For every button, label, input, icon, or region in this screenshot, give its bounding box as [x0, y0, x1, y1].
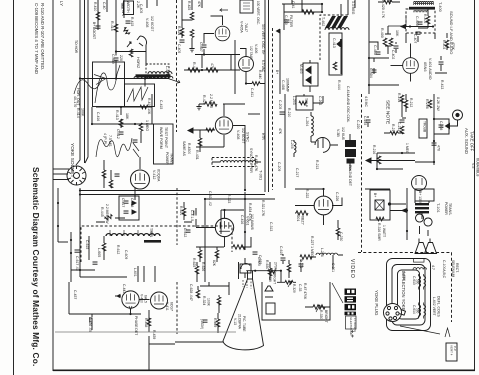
wire yoke lead 1 [53, 168, 69, 170]
capacitor C-409 [114, 58, 119, 60]
wire bus 1 [79, 0, 81, 152]
svg-text:R-626: R-626 [201, 262, 205, 271]
dashed vertical right [451, 253, 453, 323]
svg-text:C-416: C-416 [240, 215, 244, 224]
transformer T-400 core hatch [409, 7, 435, 10]
capacitor C-223 [299, 264, 304, 266]
svg-text:FT. WORTH: FT. WORTH [353, 318, 357, 332]
coil L-204 [311, 116, 313, 136]
wire [349, 134, 351, 171]
svg-text:V-412: V-412 [152, 170, 156, 179]
dashed enclosure [320, 15, 348, 60]
resistor R-42 470K [147, 318, 151, 326]
svg-text:C-414A AND OSC COIL: C-414A AND OSC COIL [346, 86, 350, 122]
wire grid arrow [115, 295, 121, 298]
diagonal lead [400, 326, 440, 334]
resistor [217, 297, 221, 305]
box [303, 63, 318, 86]
svg-text:C-412: C-412 [116, 129, 120, 139]
svg-text:1 WATT: 1 WATT [382, 225, 386, 237]
node dot [201, 69, 203, 71]
wire to crt [175, 341, 223, 343]
CRT neck lines [248, 271, 253, 279]
svg-text:AUX. SOUND: AUX. SOUND [464, 128, 469, 154]
resistor [215, 250, 219, 258]
B+ box [370, 190, 390, 220]
wire bus bend to socket [76, 147, 88, 165]
wire [240, 49, 246, 84]
T-101 core hatch [415, 203, 429, 213]
capacitor [203, 320, 208, 322]
wire [311, 142, 338, 145]
wire [283, 4, 285, 30]
svg-text:R-416: R-416 [110, 21, 114, 31]
svg-text:C-621 .02: C-621 .02 [208, 191, 212, 206]
svg-text:C-4 1.5: C-4 1.5 [190, 210, 194, 221]
arrow on resistor [316, 305, 320, 312]
svg-text:PHASE DET: PHASE DET [134, 316, 138, 335]
wire top rail 1 [80, 190, 190, 192]
coil 1 leads [419, 274, 424, 290]
wire x58 col [58, 188, 68, 242]
svg-text:1/2 6CG7: 1/2 6CG7 [241, 128, 245, 143]
svg-text:WAVE FORM: WAVE FORM [159, 127, 163, 149]
svg-text:C-416: C-416 [96, 112, 100, 121]
inner margin rule [52, 0, 54, 371]
trapezoid marks [265, 286, 273, 297]
svg-text:C-443: C-443 [122, 284, 126, 293]
neck dashes [243, 280, 251, 289]
svg-text:L-203: L-203 [292, 96, 296, 105]
sawtooth trace [127, 87, 148, 102]
wire [390, 204, 406, 211]
cap [93, 262, 98, 264]
node dot [57, 225, 59, 227]
svg-text:C-405: C-405 [177, 44, 181, 53]
resistor [216, 319, 220, 327]
svg-text:470: 470 [437, 145, 441, 151]
wire [246, 83, 265, 85]
pix det black blob 1 [345, 140, 356, 147]
wire [195, 208, 197, 227]
node dot [406, 209, 408, 211]
svg-text:6.3 VAC: 6.3 VAC [261, 60, 265, 73]
wire [94, 75, 106, 85]
capacitor [180, 40, 185, 42]
svg-text:100K: 100K [81, 108, 85, 117]
tube V-411 [151, 292, 168, 309]
wire [89, 236, 104, 260]
resistor diagonal [123, 27, 131, 36]
svg-text:R-431: R-431 [195, 150, 199, 160]
left page rule [13, 0, 15, 375]
wire plate up [223, 104, 225, 116]
coil in box [299, 101, 307, 105]
svg-text:C-415: C-415 [159, 100, 163, 109]
dashed left [176, 282, 178, 334]
T-301 winding [220, 161, 256, 163]
svg-text:PIX 2ND DET: PIX 2ND DET [348, 165, 352, 186]
node dot big [388, 202, 391, 205]
svg-text:R-227 1 MEG: R-227 1 MEG [310, 236, 314, 257]
winding core hatch [144, 240, 161, 243]
diode D [337, 40, 342, 48]
capacitor [400, 120, 405, 122]
coil 2 leads [419, 303, 424, 319]
resistor R-431 [198, 138, 202, 146]
arrow [129, 306, 132, 310]
svg-text:C-211: C-211 [331, 263, 335, 272]
cap can trapezoid 1 [415, 243, 427, 254]
node dot [204, 198, 206, 200]
T-400 base wire [402, 26, 435, 28]
wire [120, 107, 122, 128]
wire yoke lead 3 [53, 179, 69, 181]
svg-text:C-226: C-226 [335, 192, 339, 201]
wire grid [204, 34, 214, 44]
wire [244, 258, 246, 278]
svg-text:C-407: C-407 [413, 34, 417, 43]
capacitor 470 [432, 143, 437, 145]
wire grid [295, 205, 314, 207]
inner comp box [266, 303, 275, 314]
capacitor C-623 [253, 252, 258, 254]
electrolytic can 2 [424, 218, 432, 236]
svg-text:T-101: T-101 [436, 203, 440, 213]
resistor 1 MEG [139, 123, 143, 131]
wire [376, 153, 378, 169]
svg-text:B+: B+ [275, 70, 279, 74]
dashed divider [361, 94, 363, 252]
resistor hold control [129, 49, 133, 57]
svg-text:TAKE OFF: TAKE OFF [470, 131, 475, 152]
svg-text:47K: 47K [278, 128, 282, 135]
triode V-408 half [137, 36, 147, 46]
svg-text:R-413: R-413 [115, 110, 119, 120]
svg-text:FILTER: FILTER [289, 15, 293, 28]
svg-text:R-403: R-403 [442, 40, 446, 49]
wire [96, 218, 125, 222]
wire [417, 36, 419, 42]
tube V-412 6DQ6 [130, 170, 149, 189]
svg-text:DEFLECTION YOKE: DEFLECTION YOKE [401, 271, 406, 310]
wire [310, 112, 312, 142]
wire [369, 42, 389, 58]
svg-text:RECT.: RECT. [455, 263, 459, 273]
wire [199, 103, 245, 105]
wire between [140, 299, 150, 301]
svg-text:R-444: R-444 [337, 80, 341, 90]
svg-text:V-408: V-408 [236, 130, 240, 139]
inner box [375, 200, 384, 210]
diode 2 [306, 77, 311, 84]
capacitor [186, 230, 191, 232]
big waveform W [96, 138, 132, 157]
resistor R-206 [428, 100, 432, 108]
svg-text:C-628 .047: C-628 .047 [189, 284, 193, 301]
svg-text:R-433 47K: R-433 47K [254, 155, 258, 172]
svg-text:V-408: V-408 [145, 18, 149, 27]
wire [68, 282, 70, 314]
node dot [79, 269, 81, 271]
wire [395, 42, 397, 53]
svg-text:R-4300: R-4300 [187, 143, 191, 154]
node dot [433, 118, 435, 120]
wire [435, 56, 447, 73]
svg-text:L-401: L-401 [165, 66, 169, 75]
resistor L-605 [102, 243, 106, 251]
svg-text:6BZ7: 6BZ7 [301, 216, 305, 225]
svg-text:470K: 470K [451, 42, 455, 51]
yoke drop lines [138, 266, 155, 282]
svg-text:POWER: POWER [165, 152, 169, 165]
svg-text:R-206: R-206 [425, 99, 429, 109]
logo sub box [346, 316, 357, 329]
yoke socket V-Y [67, 166, 86, 185]
capacitor C-619 [281, 258, 286, 260]
coil winding [134, 76, 173, 78]
resistor [252, 82, 260, 86]
svg-text:R-612: R-612 [116, 245, 120, 254]
svg-text:6DQ6A: 6DQ6A [157, 169, 161, 182]
svg-text:4.5 MC: 4.5 MC [364, 96, 368, 107]
ground [196, 104, 201, 110]
plug key tab [400, 310, 406, 316]
box L-203 trap [296, 96, 313, 110]
wire [200, 247, 217, 262]
long boost line extended [175, 331, 236, 333]
svg-text:V-5: V-5 [471, 163, 475, 168]
wire top rail [282, 3, 322, 5]
wire cathode rail [196, 246, 224, 248]
svg-text:L-601: L-601 [133, 268, 137, 277]
resistor R-413 [119, 119, 123, 127]
wire [340, 48, 342, 74]
svg-text:21CBP4A: 21CBP4A [238, 314, 242, 330]
wire right [283, 254, 289, 278]
capacitor C-406 [126, 21, 131, 23]
pot arrow [288, 281, 292, 287]
wire cathode [410, 74, 412, 82]
box divider network [124, 1, 134, 15]
svg-text:C-612: C-612 [183, 228, 187, 237]
capacitor C-404 [372, 70, 377, 72]
resistor R-416 [114, 24, 118, 32]
wire [203, 49, 205, 54]
resistor R-420 [384, 0, 392, 4]
wire [446, 33, 448, 50]
wire bottom [71, 270, 127, 277]
nested yoke loop inner [398, 270, 420, 319]
resistor [198, 250, 202, 258]
capacitor C-403 [376, 52, 381, 54]
svg-text:VIDEO: VIDEO [349, 259, 355, 279]
svg-text:C-209: C-209 [277, 162, 281, 171]
svg-text:1/2 7AU7: 1/2 7AU7 [249, 46, 253, 60]
coupling box [434, 119, 449, 134]
wire [406, 33, 435, 43]
wire [91, 314, 93, 330]
node dot [433, 161, 435, 163]
svg-text:100MMF: 100MMF [286, 78, 290, 93]
svg-text:L-605: L-605 [97, 248, 101, 257]
svg-text:C-411: C-411 [250, 88, 254, 97]
dashed flyback box top [81, 226, 232, 262]
svg-text:R-436 .05: R-436 .05 [88, 317, 92, 332]
svg-text:C-402: C-402 [391, 50, 395, 59]
resistor R-626 [195, 266, 199, 274]
wave form test point box [154, 124, 174, 164]
svg-text:B+ BOOST: B+ BOOST [92, 22, 96, 39]
svg-text:C-418: C-418 [130, 198, 134, 207]
LB&M logo [345, 289, 357, 316]
resistor [445, 40, 449, 48]
wire [340, 4, 342, 16]
wire cathode [224, 237, 226, 247]
dashed horizontal [358, 252, 452, 254]
box C-413 [329, 33, 342, 75]
svg-text:V-406: V-406 [254, 44, 258, 53]
long thin line [55, 331, 175, 333]
svg-text:B+ 135V: B+ 135V [418, 191, 422, 205]
resistor [296, 211, 308, 215]
node dot [203, 53, 205, 55]
ground [189, 46, 194, 52]
wire long left [69, 313, 141, 315]
node dot [223, 209, 225, 211]
svg-text:V-411: V-411 [165, 302, 169, 311]
svg-text:BRIGHT: BRIGHT [273, 272, 277, 284]
dashed coil box L-401 [146, 64, 169, 78]
big scope curve [74, 78, 102, 94]
sync col wire [244, 192, 246, 250]
cap can trapezoid 2 [425, 243, 437, 254]
svg-text:100K: 100K [207, 298, 211, 307]
wire [115, 0, 117, 52]
svg-text:7.5 MS: 7.5 MS [108, 135, 112, 147]
capacitor C-418 [124, 211, 129, 213]
resistor R-401 [389, 38, 393, 46]
svg-text:R-329: R-329 [292, 284, 296, 293]
discrim extra [366, 116, 405, 135]
test label box [446, 343, 457, 361]
svg-text:C-109 BECOMES 4 TO 7 MMF AND: C-109 BECOMES 4 TO 7 MMF AND [34, 3, 39, 74]
svg-text:WIDTH: WIDTH [126, 1, 130, 13]
svg-text:7AU7: 7AU7 [244, 23, 248, 32]
svg-text:LY: LY [59, 1, 64, 6]
svg-text:C-617 .02: C-617 .02 [75, 256, 79, 271]
arrow left [402, 209, 407, 213]
svg-text:R-630: R-630 [265, 260, 269, 269]
X marks [375, 200, 384, 210]
wire [199, 130, 201, 152]
wire [305, 306, 330, 308]
svg-text:DEFL. COILS: DEFL. COILS [437, 296, 441, 317]
coil core bar [136, 75, 170, 77]
spike waveform [445, 328, 450, 337]
svg-text:L-602 VERT: L-602 VERT [432, 297, 436, 316]
node dot [115, 50, 117, 52]
svg-text:C-405: C-405 [139, 4, 143, 13]
wire grid left [391, 65, 403, 67]
svg-text:R-217: R-217 [391, 124, 395, 133]
svg-text:L-205: L-205 [290, 140, 294, 149]
wire long left rail [368, 0, 370, 94]
T-400 winding top [414, 3, 434, 5]
svg-text:C-213: C-213 [397, 122, 401, 131]
wire top rail 2 [80, 194, 265, 196]
wire [378, 1, 400, 3]
node dot [129, 313, 131, 315]
resistor [400, 95, 404, 103]
svg-text:C-615: C-615 [85, 240, 89, 249]
vert defl coil 2a [419, 305, 421, 316]
wire [140, 131, 142, 143]
svg-text:82K: 82K [212, 260, 216, 267]
node dot [406, 230, 408, 232]
svg-text:C-437: C-437 [73, 290, 77, 299]
resistor [102, 170, 106, 178]
svg-text:V-3B: V-3B [336, 129, 340, 137]
svg-text:47K: 47K [197, 1, 201, 8]
wire col [204, 199, 206, 282]
resistor R-328 [268, 270, 276, 274]
svg-text:R-323: R-323 [227, 194, 231, 203]
pix det black blob 3 [347, 159, 355, 164]
wire [80, 78, 169, 80]
svg-text:R-434 470K: R-434 470K [248, 203, 252, 222]
svg-text:SELENIUM: SELENIUM [451, 260, 455, 278]
wire [221, 210, 244, 234]
capacitor C-208 [439, 125, 444, 127]
wire top [200, 285, 229, 287]
wire stub [147, 0, 157, 8]
logo plus marks [351, 330, 354, 338]
wire top [365, 188, 390, 190]
resistor [180, 28, 184, 36]
wire grid [189, 129, 215, 131]
svg-text:R-210: R-210 [287, 108, 291, 117]
logo counters [347, 290, 350, 293]
svg-text:C-403: C-403 [373, 45, 377, 55]
svg-text:C-217: C-217 [295, 168, 299, 177]
wire stub [106, 0, 108, 12]
wire [269, 262, 271, 280]
wire bottom [415, 147, 434, 162]
svg-text:R-425: R-425 [187, 1, 191, 10]
node dot [57, 202, 59, 204]
wire [401, 99, 403, 117]
top center extras [180, 0, 247, 250]
capacitor C-417 [124, 201, 129, 203]
wire [402, 94, 406, 118]
wire [197, 286, 199, 298]
node dot [432, 25, 434, 27]
potentiometer arrow [127, 42, 131, 47]
svg-text:C-220: C-220 [356, 120, 360, 129]
phono jack outer [453, 110, 463, 120]
tube V-60x video out [215, 218, 233, 236]
node dot [368, 57, 370, 59]
wire [209, 282, 229, 295]
svg-text:POWER: POWER [444, 202, 448, 215]
corner box top of bus [240, 0, 253, 13]
wire [182, 0, 192, 20]
svg-text:R-424: R-424 [177, 26, 181, 35]
resistor [287, 264, 291, 272]
capacitor [133, 140, 138, 142]
right column extras row1 [416, 9, 430, 42]
